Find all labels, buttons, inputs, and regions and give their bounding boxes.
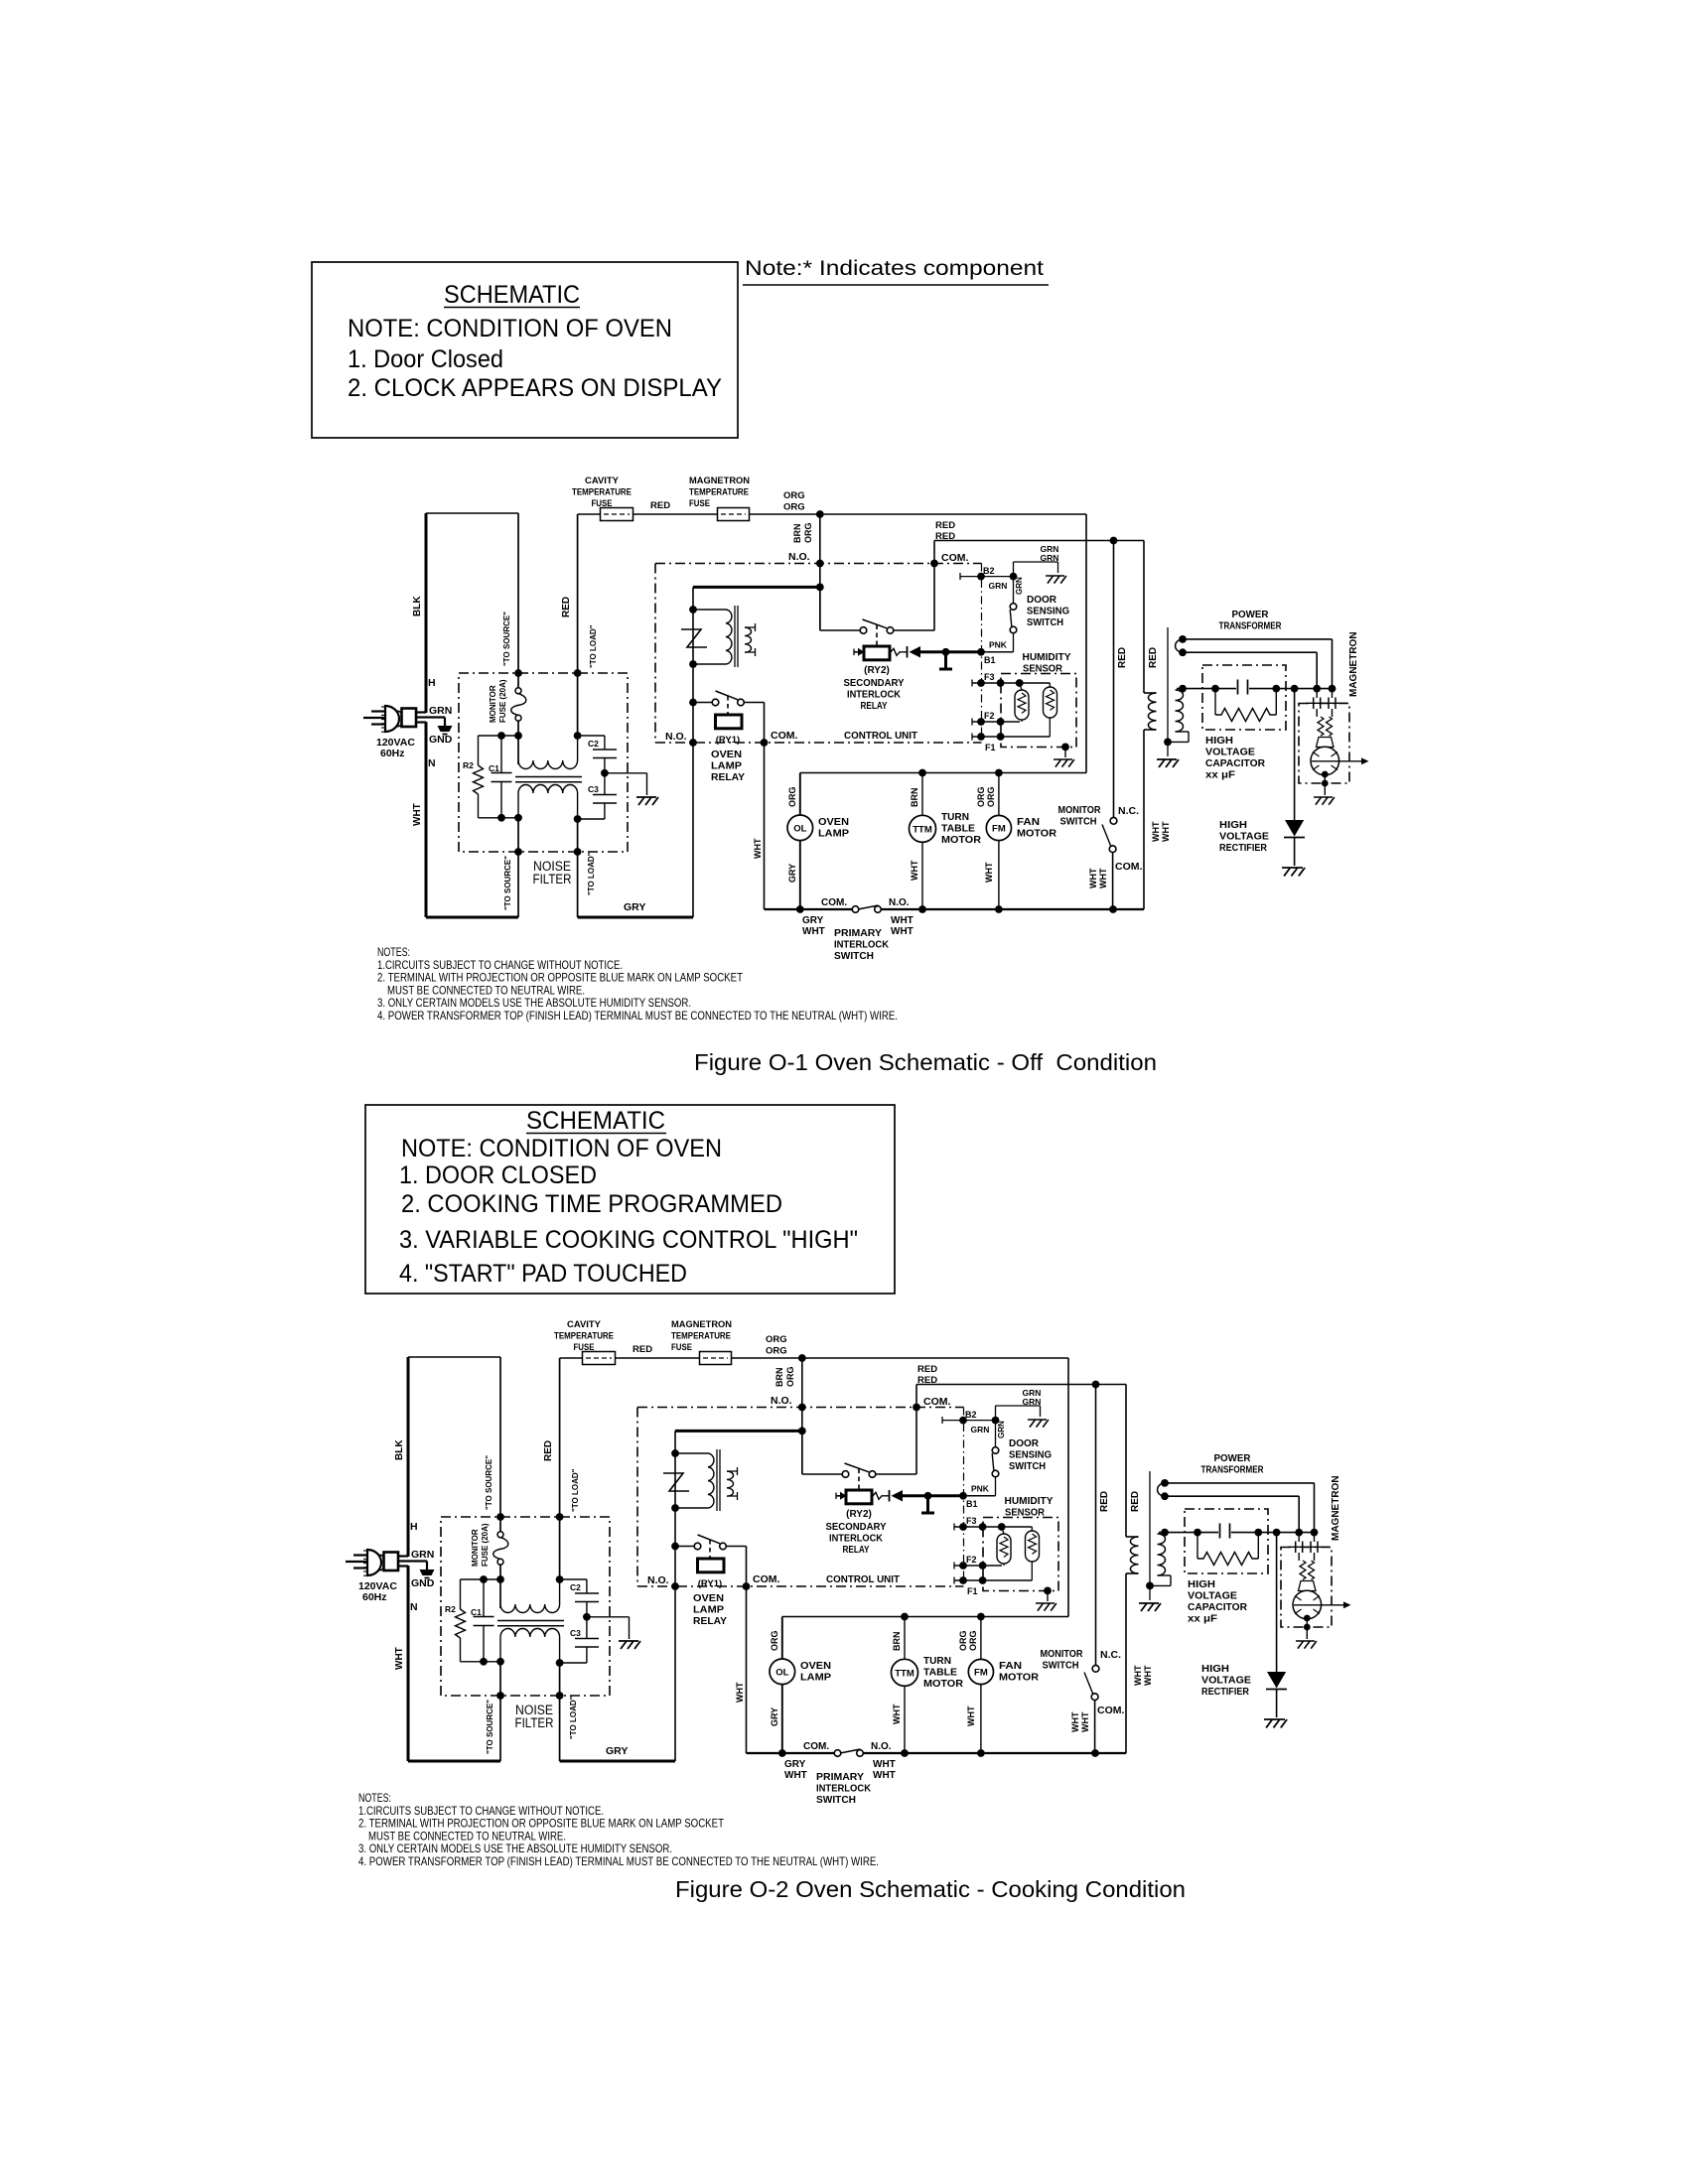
svg-text:OVEN: OVEN [800,1660,831,1672]
core filter transformer core (fig O-1) [515,776,582,778]
node resistor left (fig O-2) [1194,1529,1201,1537]
magnetron box (fig O-1) [1299,704,1349,784]
wire TO SOURCE drop (fig O-1) [517,513,519,690]
svg-text:COM.: COM. [1115,861,1142,873]
node filament upper (fig O-1) [1179,635,1187,643]
svg-text:FAN: FAN [999,1660,1022,1672]
node magnetron cathode (fig O-1) [1322,771,1329,778]
svg-text:HIGH: HIGH [1201,1663,1229,1675]
svg-text:xx μF: xx μF [1188,1613,1218,1625]
wire R2 C1 top bar (fig O-1) [479,735,519,737]
node humidity ground tap (fig O-2) [1044,1587,1052,1595]
wire high voltage line (fig O-1) [1177,688,1236,690]
svg-text:GRN: GRN [411,1549,434,1561]
switch door sensing switch (fig O-1) [1013,579,1015,604]
node filter junction mid (fig O-1) [514,732,522,740]
svg-text:RECTIFIER: RECTIFIER [1201,1686,1249,1698]
svg-text:N: N [410,1601,418,1613]
wire OL feed (fig O-2) [781,1617,783,1660]
svg-text:FUSE: FUSE [574,1342,595,1353]
wire OL feed (fig O-1) [799,773,801,816]
test point hang (fig O-2) [926,1496,929,1513]
svg-text:4. "START" PAD TOUCHED: 4. "START" PAD TOUCHED [399,1260,687,1288]
svg-text:BRN: BRN [792,524,802,544]
wire relay feed horizontal (fig O-1) [693,586,820,589]
node COM control top (fig O-2) [913,1404,920,1412]
svg-text:GRN: GRN [989,581,1008,591]
switch door sensing switch (fig O-2) [995,1423,997,1447]
svg-text:RECTIFIER: RECTIFIER [1219,842,1267,854]
svg-text:F3: F3 [966,1516,977,1526]
node filter bottom mid (fig O-1) [514,814,522,822]
node TTM top (fig O-1) [918,769,926,777]
svg-text:FM: FM [992,824,1006,835]
node FM top (fig O-1) [995,769,1003,777]
svg-text:OVEN: OVEN [693,1592,724,1604]
svg-text:DOOR: DOOR [1027,594,1056,606]
switch relay contact RY1 (fig O-2) [675,1546,694,1548]
node filter junction load (fig O-1) [574,732,582,740]
wire RED RED horizontal (fig O-2) [916,1384,1126,1386]
node filter top load (fig O-2) [556,1513,564,1521]
wire bottom bus left (fig O-2) [747,1752,835,1754]
wire OL return (fig O-2) [781,1685,783,1753]
wire transformer primary return (fig O-1) [1144,729,1157,731]
svg-text:ORG: ORG [976,786,986,807]
svg-text:COM.: COM. [1097,1705,1124,1716]
resistor R2 (fig O-2) [460,1579,462,1609]
wire BLK hot vertical (fig O-2) [407,1357,410,1557]
magnetron neck (fig O-1) [1317,738,1335,748]
node filament upper (fig O-2) [1161,1479,1169,1487]
capacitor C2 (fig O-2) [575,1592,599,1594]
node monitor branch (fig O-1) [1110,537,1118,545]
fuse cavity temperature fuse (fig O-1) [601,508,633,521]
wire GRN GRN to ground (fig O-2) [995,1406,997,1421]
motor FM fan motor (fig O-1) [986,815,1011,840]
svg-text:(RY2): (RY2) [846,1509,872,1520]
wire filament lead upper (fig O-2) [1158,1483,1166,1496]
svg-text:TRANSFORMER: TRANSFORMER [1219,620,1282,632]
svg-text:WHT: WHT [735,1682,745,1703]
node filter bottom load (fig O-1) [574,815,582,823]
wire R2 bottom bar (fig O-1) [479,817,519,819]
zigzag core saturation mark (fig O-1) [681,629,707,647]
svg-text:CAVITY: CAVITY [567,1319,602,1330]
wire relay branch vertical (fig O-1) [692,587,694,917]
control unit box (fig O-1) [655,563,982,565]
svg-text:GRN: GRN [1015,577,1024,595]
svg-text:4. POWER TRANSFORMER TOP (FINI: 4. POWER TRANSFORMER TOP (FINISH LEAD) T… [377,1009,898,1023]
diode RY2 steering diode (fig O-2) [889,1490,891,1502]
core power transformer core (fig O-2) [1149,1471,1151,1600]
svg-text:HIGH: HIGH [1205,735,1233,747]
wire C2 branch (fig O-1) [578,735,605,737]
svg-text:COM.: COM. [941,552,968,564]
wire plug hot to BLK (fig O-2) [398,1555,408,1557]
svg-text:SECONDARY: SECONDARY [844,677,905,689]
transformer power secondary (fig O-1) [1176,690,1184,732]
svg-text:3. VARIABLE COOKING CONTROL "H: 3. VARIABLE COOKING CONTROL "HIGH" [399,1226,858,1254]
wire transformer primary feed (fig O-1) [1143,541,1145,694]
pin F3 (fig O-1) [971,680,973,687]
node diode tap (fig O-1) [1291,685,1299,693]
svg-text:WHT: WHT [784,1770,807,1781]
svg-text:SWITCH: SWITCH [816,1794,856,1806]
svg-text:F3: F3 [984,672,995,682]
svg-text:WHT: WHT [1080,1711,1090,1732]
node filament lower (fig O-2) [1161,1492,1169,1500]
svg-text:TURN: TURN [923,1655,951,1667]
node FM bus (fig O-1) [995,905,1003,913]
svg-text:xx μF: xx μF [1205,769,1236,781]
wire right edge vertical (fig O-1) [1085,514,1087,773]
svg-text:SENSING: SENSING [1027,606,1069,617]
node relay feed junction (fig O-1) [816,584,824,592]
node filament left HV (fig O-2) [1295,1529,1303,1537]
svg-text:"TO SOURCE": "TO SOURCE" [485,1455,493,1510]
svg-text:MAGNETRON: MAGNETRON [1348,631,1359,697]
wire load bottom drop (fig O-2) [559,1663,561,1761]
capacitor high voltage capacitor (fig O-2) [1219,1524,1221,1539]
svg-text:WHT: WHT [891,915,914,926]
thermistor humidity element left (fig O-1) [1020,683,1022,690]
svg-text:GRY: GRY [770,1707,779,1726]
svg-text:COM.: COM. [923,1396,950,1408]
svg-text:H: H [428,677,436,689]
noise filter enclosure box (fig O-1) [459,673,628,852]
svg-text:NOTE: CONDITION OF OVEN: NOTE: CONDITION OF OVEN [348,315,672,342]
wire right edge vertical (fig O-2) [1067,1358,1069,1617]
svg-text:"TO LOAD": "TO LOAD" [589,624,598,668]
wire ORG drop to NO (fig O-2) [801,1358,803,1474]
pin F3 (fig O-2) [953,1524,955,1531]
svg-text:TURN: TURN [941,811,969,823]
svg-text:HUMIDITY: HUMIDITY [1005,1495,1054,1507]
capacitor C1 (fig O-2) [483,1579,485,1617]
wire C2 branch (fig O-2) [560,1578,587,1580]
ground magnetron ground (fig O-2) [1306,1618,1308,1639]
node filter bottom load (fig O-2) [556,1659,564,1667]
svg-text:N.C.: N.C. [1118,805,1139,817]
svg-text:RELAY: RELAY [861,700,888,712]
motor FM fan motor (fig O-2) [968,1659,993,1684]
thermistor humidity element right (fig O-1) [1049,683,1051,687]
wire top supply line RED (fig O-1) [578,513,1086,515]
core control transformer core (fig O-2) [716,1449,718,1511]
capacitor feedthrough right (fig O-1) [1332,689,1334,698]
svg-text:"TO SOURCE": "TO SOURCE" [503,856,512,910]
ground transformer ground (fig O-2) [1139,1603,1161,1611]
wire top-left horizontal (fig O-1) [426,512,518,514]
wire C2C3 to ground (fig O-2) [587,1616,630,1618]
svg-text:H: H [410,1521,418,1533]
wire GRY bottom (fig O-2) [560,1760,675,1763]
wire C2C3 to ground (fig O-1) [605,772,647,774]
node RY1 COM terminal (fig O-1) [761,739,769,747]
control unit box (fig O-2) [637,1407,964,1409]
transformer control power secondary (fig O-1) [745,627,752,652]
svg-text:MONITOR: MONITOR [1041,1648,1083,1660]
svg-text:HUMIDITY: HUMIDITY [1023,651,1071,663]
svg-text:MOTOR: MOTOR [999,1672,1039,1684]
wire relay branch vertical (fig O-2) [674,1431,676,1761]
svg-text:F2: F2 [984,711,995,721]
svg-text:SECONDARY: SECONDARY [826,1521,887,1533]
wire load bottom drop (fig O-1) [577,819,579,917]
node resistor left (fig O-1) [1211,685,1219,693]
svg-text:INTERLOCK: INTERLOCK [816,1783,871,1795]
wire BLK hot vertical (fig O-1) [425,513,428,713]
node filter bottom left (fig O-1) [497,814,505,822]
node junction top ORG (fig O-2) [798,1354,806,1362]
transformer power primary (fig O-1) [1148,693,1156,730]
svg-text:WHT: WHT [892,1704,902,1724]
svg-text:VOLTAGE: VOLTAGE [1219,831,1269,843]
svg-text:"TO LOAD": "TO LOAD" [569,1696,578,1739]
svg-text:SWITCH: SWITCH [1060,816,1097,828]
wire motor top bus (fig O-2) [782,1616,1068,1618]
svg-text:INTERLOCK: INTERLOCK [834,939,889,951]
wire FM feed (fig O-2) [980,1617,982,1660]
switch monitor switch (fig O-2) [1092,1665,1099,1672]
node HV secondary tap (fig O-2) [1161,1529,1169,1537]
svg-text:SCHEMATIC: SCHEMATIC [444,281,580,309]
svg-text:MOTOR: MOTOR [941,834,981,846]
svg-text:MONITOR: MONITOR [471,1529,480,1567]
svg-text:N.C.: N.C. [1100,1649,1121,1661]
node RY1 NO terminal (fig O-1) [689,739,697,747]
switch relay contact RY1 (fig O-1) [693,702,712,704]
core power transformer core (fig O-1) [1167,627,1169,756]
wire FM return (fig O-1) [998,841,1000,909]
ground humidity sensor ground (fig O-2) [1047,1590,1049,1601]
svg-text:FUSE: FUSE [671,1342,692,1353]
wire transformer primary return (fig O-2) [1126,1572,1139,1574]
svg-text:B2: B2 [983,566,995,576]
wire transformer secondary bottom (fig O-1) [1176,731,1190,733]
inductor filter winding lower (fig O-2) [500,1628,560,1637]
wire source bottom drop (fig O-2) [499,1662,501,1761]
transformer control power primary (fig O-2) [675,1452,708,1454]
wire motor top bus (fig O-1) [800,772,1086,774]
svg-text:B1: B1 [966,1499,978,1509]
wire R2 C1 top bar (fig O-2) [461,1578,501,1580]
svg-text:Figure O-1 Oven Schematic - Of: Figure O-1 Oven Schematic - Off Conditio… [694,1049,1157,1075]
node coil top (fig O-2) [671,1449,679,1457]
svg-text:WHT: WHT [1088,868,1098,888]
svg-text:WHT: WHT [1098,868,1108,888]
inductor filter winding lower (fig O-1) [518,784,578,793]
lamp OL oven lamp (fig O-2) [770,1659,795,1685]
pin B2 (fig O-1) [959,573,961,580]
svg-text:MAGNETRON: MAGNETRON [689,476,750,486]
node secondary ground tap (fig O-1) [1164,739,1172,747]
node OL bus (fig O-2) [778,1749,786,1757]
svg-text:"TO LOAD": "TO LOAD" [587,852,596,895]
svg-text:N.O.: N.O. [871,1741,892,1752]
svg-text:COM.: COM. [821,897,847,908]
node junction top ORG (fig O-1) [816,510,824,518]
wire RY2 switch left (fig O-2) [801,1431,803,1474]
node TTM bus (fig O-1) [918,905,926,913]
wire GRN to ground (fig O-1) [416,716,445,718]
wire bottom bus right (fig O-2) [863,1752,1126,1754]
svg-text:(RY1): (RY1) [698,1578,722,1589]
wire RY1 switch row (fig O-2) [726,1546,746,1548]
capacitor C1 (fig O-1) [500,736,502,773]
svg-text:RELAY: RELAY [843,1544,870,1556]
node humidity ground tap (fig O-1) [1061,744,1069,751]
svg-text:RED: RED [1130,1491,1141,1512]
ground rectifier ground (fig O-2) [1264,1719,1287,1727]
svg-text:GRY: GRY [787,864,797,883]
wire high voltage line (fig O-2) [1159,1532,1218,1534]
node filament right HV (fig O-1) [1329,685,1336,693]
node RY1 pole (fig O-2) [671,1543,679,1551]
node HV secondary tap (fig O-1) [1179,685,1187,693]
wire ORG drop to NO (fig O-1) [819,514,821,630]
svg-text:N.O.: N.O. [788,551,810,563]
switch primary interlock switch (fig O-1) [852,906,859,913]
relay coil RY2 secondary interlock relay (fig O-1) [854,651,859,653]
svg-text:BLK: BLK [412,596,423,616]
svg-text:GND: GND [429,734,453,746]
svg-text:SENSOR: SENSOR [1023,663,1062,675]
wire RY2 switch right (fig O-2) [876,1473,917,1475]
svg-text:"TO LOAD": "TO LOAD" [571,1468,580,1512]
wire GRN GRN to ground (fig O-1) [1013,562,1015,577]
svg-text:WHT: WHT [910,860,919,881]
resistor bleeder resistor (fig O-1) [1214,689,1216,715]
node FM top (fig O-2) [977,1613,985,1621]
wire source bottom drop (fig O-1) [517,818,519,917]
svg-text:OL: OL [793,824,806,835]
plug 120VAC line cord (fig O-2) [367,1550,381,1575]
wire B pin dashed vertical (fig O-2) [963,1408,965,1587]
node resistor right (fig O-2) [1254,1529,1262,1537]
svg-text:FAN: FAN [1017,816,1040,828]
inductor filter winding upper (fig O-2) [500,1604,560,1613]
svg-text:RED: RED [633,1344,652,1355]
svg-text:PRIMARY: PRIMARY [816,1771,864,1783]
node filter top source (fig O-1) [514,669,522,677]
svg-text:GRY: GRY [606,1745,628,1757]
wire RY1 switch row (fig O-1) [744,702,764,704]
svg-text:MONITOR: MONITOR [489,685,497,723]
svg-text:GRN: GRN [997,1421,1006,1438]
svg-text:RED: RED [935,520,955,531]
wire plug hot to BLK (fig O-1) [416,711,426,713]
svg-text:SWITCH: SWITCH [834,950,874,962]
core control transformer core (fig O-1) [734,606,736,667]
svg-text:RED: RED [561,597,572,617]
svg-text:Note:* Indicates component: Note:* Indicates component [745,256,1044,280]
svg-text:R2: R2 [445,1604,456,1614]
note header underline [743,284,1049,286]
node filament lower (fig O-1) [1179,648,1187,656]
ground door switch ground (fig O-2) [1028,1420,1049,1428]
svg-text:PNK: PNK [989,640,1008,650]
svg-text:RED: RED [650,500,670,511]
svg-text:WHT: WHT [1133,1665,1143,1686]
core filter transformer core (fig O-2) [497,1620,564,1622]
wire bottom bus right (fig O-1) [881,908,1144,910]
svg-text:F1: F1 [985,743,996,752]
svg-text:Figure O-2 Oven Schematic - Co: Figure O-2 Oven Schematic - Cooking Cond… [675,1876,1186,1902]
svg-text:RED: RED [1099,1491,1110,1512]
node diode tap (fig O-2) [1273,1529,1281,1537]
relay coil RY2 secondary interlock relay (fig O-2) [836,1495,841,1497]
switch monitor switch (fig O-1) [1110,817,1117,824]
svg-text:LAMP: LAMP [800,1672,831,1684]
svg-text:ORG: ORG [783,502,805,513]
svg-text:WHT: WHT [966,1706,976,1726]
svg-text:RED: RED [1117,647,1128,668]
svg-text:TRANSFORMER: TRANSFORMER [1201,1464,1264,1476]
wire top supply line RED (fig O-2) [560,1357,1068,1359]
wire filament lead upper (fig O-1) [1176,639,1184,652]
svg-text:VOLTAGE: VOLTAGE [1201,1675,1251,1687]
fuse cavity temperature fuse (fig O-2) [583,1352,616,1365]
wire relay feed horizontal (fig O-2) [675,1430,802,1433]
wire bottom bus left (fig O-1) [765,908,853,910]
svg-text:WHT: WHT [873,1770,896,1781]
wire filament lead lower (fig O-1) [1183,651,1317,653]
svg-text:TEMPERATURE: TEMPERATURE [572,487,632,498]
svg-text:WHT: WHT [1161,821,1171,842]
node relay feed junction (fig O-2) [798,1428,806,1435]
wire FM return (fig O-2) [980,1685,982,1753]
relay coil RY1 oven lamp relay (fig O-2) [698,1559,725,1572]
svg-text:RED: RED [1148,647,1159,668]
node COM control top (fig O-1) [930,560,938,568]
node filament right HV (fig O-2) [1311,1529,1319,1537]
svg-text:WHT: WHT [1151,821,1161,842]
wire monitor drop (fig O-1) [1113,541,1115,818]
svg-text:ORG: ORG [958,1630,968,1651]
svg-text:TTM: TTM [913,825,932,836]
svg-text:ORG: ORG [766,1334,787,1345]
capacitor C3 (fig O-2) [586,1617,588,1639]
node secondary ground tap (fig O-2) [1146,1582,1154,1590]
transformer power secondary (fig O-2) [1158,1534,1166,1575]
filament heater coils (fig O-2) [1300,1561,1306,1579]
wire filament lead lower (fig O-2) [1165,1495,1299,1497]
zigzag core saturation mark (fig O-2) [663,1473,689,1491]
svg-text:N: N [428,757,436,769]
svg-text:TABLE: TABLE [923,1667,957,1679]
wire monitor fuse to junction (fig O-1) [517,721,519,764]
ground door switch ground (fig O-1) [1046,576,1066,584]
svg-text:ORG: ORG [770,1630,779,1651]
svg-text:"TO SOURCE": "TO SOURCE" [486,1700,494,1754]
capacitor feedthrough left (fig O-1) [1316,689,1318,698]
node filter top source (fig O-2) [496,1513,504,1521]
transformer control power secondary (fig O-2) [727,1471,734,1496]
svg-text:FM: FM [974,1668,988,1679]
node filter junction load (fig O-2) [556,1575,564,1583]
svg-text:OVEN: OVEN [818,816,849,828]
node TTM top (fig O-2) [901,1613,909,1621]
node RY1 COM terminal (fig O-2) [743,1582,751,1590]
svg-text:C2: C2 [588,739,599,749]
svg-text:FILTER: FILTER [533,872,572,887]
svg-text:LAMP: LAMP [711,760,742,772]
thermistor humidity element right (fig O-2) [1031,1527,1033,1531]
svg-text:1. DOOR CLOSED: 1. DOOR CLOSED [399,1161,597,1189]
node filter exit source (fig O-2) [496,1692,504,1700]
